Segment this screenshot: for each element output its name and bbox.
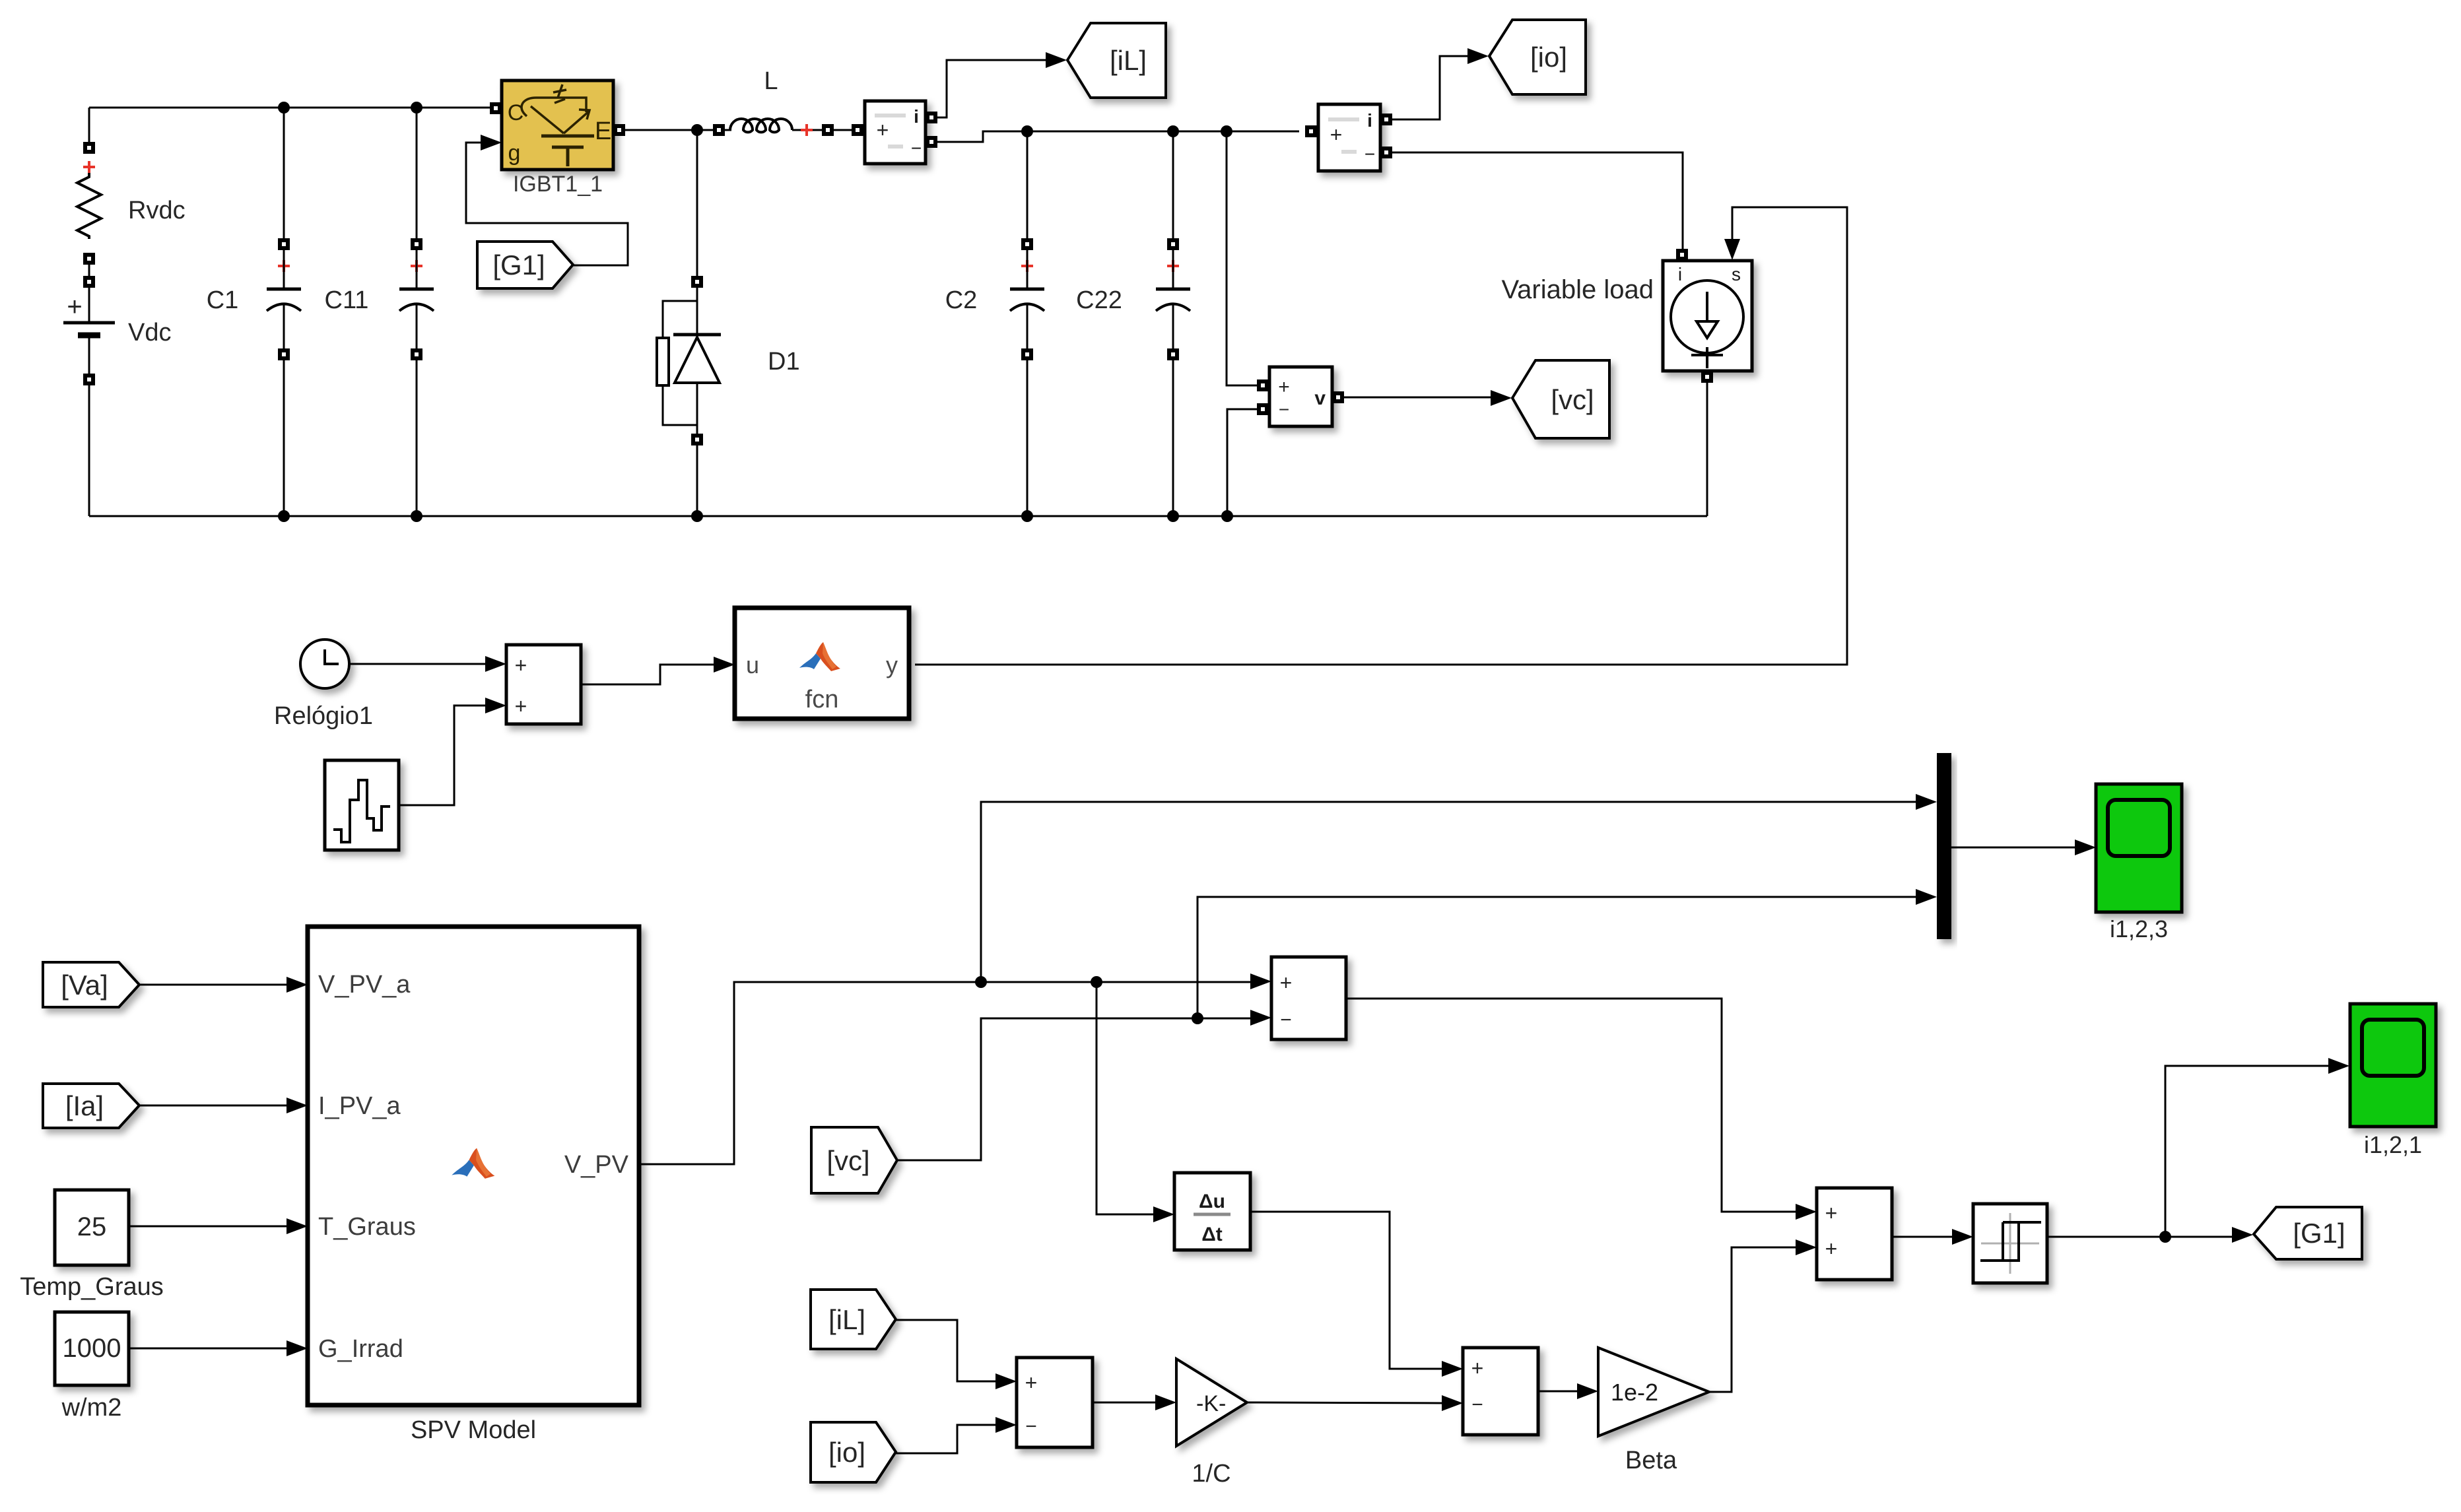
node D1 top junction bbox=[691, 124, 703, 136]
from tag [Ia] bbox=[43, 1084, 139, 1128]
svg-text:Beta: Beta bbox=[1625, 1447, 1677, 1474]
wire main bus to sensor2 bbox=[937, 131, 1299, 142]
svg-text:g: g bbox=[508, 141, 521, 166]
from tag [Va] bbox=[43, 962, 139, 1007]
svg-text:IGBT1_1: IGBT1_1 bbox=[513, 172, 603, 197]
wire relay to [G1] bbox=[2047, 1236, 2233, 1238]
node vc branch to mux bbox=[1192, 1012, 1203, 1024]
svg-text:E: E bbox=[595, 117, 611, 145]
current measurement block 1 (iL) bbox=[852, 124, 863, 136]
goto tag [iL] bbox=[1067, 23, 1166, 98]
repeating sequence block bbox=[325, 760, 399, 850]
wire vc to mux input 2 bbox=[1197, 897, 1917, 1018]
svg-text:C: C bbox=[508, 100, 524, 125]
snubber RC of D1 bbox=[663, 301, 696, 338]
wire sum to fcn bbox=[581, 665, 715, 684]
wire final sum to relay bbox=[1892, 1236, 1953, 1238]
capacitor C11 bbox=[416, 108, 418, 238]
port IGBT E output bbox=[613, 124, 625, 136]
capacitor C1 bbox=[283, 108, 285, 238]
svg-text:SPV Model: SPV Model bbox=[411, 1416, 536, 1444]
svg-text:C1: C1 bbox=[207, 286, 239, 314]
wire voltmeter + tap bbox=[1227, 131, 1257, 385]
wire to derivative input bbox=[1096, 982, 1153, 1214]
svg-text:+: + bbox=[1471, 1356, 1484, 1380]
node D1 bottom bbox=[691, 510, 703, 522]
svg-text:D1: D1 bbox=[768, 348, 800, 376]
svg-text:V_PV_a: V_PV_a bbox=[318, 971, 411, 999]
wire [G1] to IGBT gate bbox=[466, 143, 628, 265]
svg-text:Δu: Δu bbox=[1199, 1191, 1225, 1212]
svg-text:+: + bbox=[1278, 376, 1290, 398]
MATLAB function block fcn bbox=[735, 608, 909, 719]
wire left rail top bbox=[88, 108, 90, 145]
svg-text:[iL]: [iL] bbox=[828, 1304, 865, 1335]
port sensor2 i out bbox=[1380, 114, 1392, 125]
svg-text:G_Irrad: G_Irrad bbox=[318, 1335, 403, 1363]
svg-text:−: − bbox=[1280, 1009, 1292, 1031]
svg-text:1/C: 1/C bbox=[1192, 1460, 1230, 1488]
wire V_PV to subtract + bbox=[639, 982, 1250, 1164]
goto tag [G1] lower bbox=[2254, 1207, 2362, 1259]
port sensor2 - out bbox=[1380, 147, 1392, 158]
node V_PV branch to derivative bbox=[1091, 976, 1102, 988]
wire repseq to sum bbox=[399, 706, 485, 805]
svg-text:V_PV: V_PV bbox=[564, 1151, 629, 1179]
svg-text:+: + bbox=[515, 694, 527, 718]
node voltmeter gnd bbox=[1221, 510, 1233, 522]
wire top bus left (Rvdc/C1/C11 to IGBT C) bbox=[89, 107, 493, 109]
svg-text:I_PV_a: I_PV_a bbox=[318, 1092, 401, 1120]
port sensor1 i out bbox=[926, 112, 937, 123]
scope i1,2,1 bbox=[2350, 1004, 2436, 1127]
mux bbox=[1937, 753, 1951, 939]
wire 1000 to SPV bbox=[129, 1348, 287, 1350]
variable load block bbox=[1676, 249, 1688, 261]
DC voltage source Vdc bbox=[88, 288, 90, 321]
relay block bbox=[1973, 1204, 2047, 1283]
node V_PV branch to mux bbox=[975, 976, 987, 988]
svg-text:Relógio1: Relógio1 bbox=[274, 702, 373, 730]
svg-text:C22: C22 bbox=[1076, 286, 1122, 314]
svg-text:+: + bbox=[1025, 1371, 1038, 1395]
wire voltmeter to [vc] bbox=[1344, 397, 1492, 399]
wire derivative to beta sum + bbox=[1250, 1212, 1442, 1369]
node C22 bottom bbox=[1167, 510, 1179, 522]
capacitor C2 bbox=[1027, 131, 1028, 238]
wire 1/C to beta sum - bbox=[1247, 1402, 1442, 1403]
svg-text:fcn: fcn bbox=[805, 686, 839, 713]
wire sensor2 i to [io] bbox=[1392, 56, 1469, 119]
wire subtract out to final sum bbox=[1346, 999, 1796, 1212]
node C11 top bbox=[411, 102, 422, 114]
wire [iL] to sum + bbox=[896, 1320, 995, 1381]
svg-text:[io]: [io] bbox=[828, 1437, 865, 1468]
wire IGBT E to L bbox=[625, 129, 713, 131]
svg-text:i: i bbox=[914, 106, 919, 127]
svg-text:v: v bbox=[1314, 387, 1326, 409]
constant block 25 Temp_Graus bbox=[55, 1190, 129, 1265]
wire [io] to sum - bbox=[896, 1425, 995, 1453]
svg-text:[Va]: [Va] bbox=[61, 970, 108, 1001]
wire bottom rail bbox=[89, 515, 1707, 517]
svg-text:i1,2,1: i1,2,1 bbox=[2364, 1131, 2422, 1158]
wire sensor1 i to [iL] bbox=[937, 60, 1047, 117]
svg-text:[iL]: [iL] bbox=[1110, 45, 1147, 76]
svg-text:−: − bbox=[1471, 1394, 1483, 1416]
wire fcn y to load s port bbox=[915, 207, 1847, 665]
svg-text:C11: C11 bbox=[325, 286, 369, 314]
from tag [vc] lower bbox=[811, 1127, 897, 1193]
wire V_PV to mux input 1 bbox=[981, 802, 1917, 982]
constant block 1000 w/m2 bbox=[55, 1312, 129, 1385]
gain block 1/C bbox=[1176, 1359, 1247, 1446]
gain block Beta 1e-2 bbox=[1598, 1348, 1709, 1436]
svg-text:[io]: [io] bbox=[1530, 42, 1567, 73]
svg-text:+: + bbox=[1825, 1237, 1838, 1261]
svg-text:[Ia]: [Ia] bbox=[65, 1090, 104, 1121]
wire sum to 1/C gain bbox=[1093, 1402, 1157, 1404]
node C11 bottom bbox=[411, 510, 422, 522]
svg-text:+: + bbox=[1280, 971, 1293, 995]
svg-text:[vc]: [vc] bbox=[826, 1145, 869, 1176]
svg-text:-K-: -K- bbox=[1196, 1391, 1226, 1416]
wire Beta to final sum bbox=[1709, 1247, 1796, 1392]
node C1 top bbox=[278, 102, 290, 114]
svg-text:i1,2,3: i1,2,3 bbox=[2110, 915, 2168, 942]
port IGBT C input bbox=[490, 102, 502, 114]
wire mux to scope i1,2,3 bbox=[1951, 847, 2076, 849]
svg-text:Δt: Δt bbox=[1201, 1224, 1223, 1245]
node voltmeter tap bbox=[1221, 125, 1232, 137]
svg-text:Temp_Graus: Temp_Graus bbox=[20, 1273, 164, 1301]
svg-text:[G1]: [G1] bbox=[2293, 1218, 2345, 1249]
svg-text:s: s bbox=[1732, 264, 1741, 284]
sum block (clock + repseq) bbox=[506, 645, 581, 724]
svg-text:Vdc: Vdc bbox=[128, 319, 171, 346]
transistor IGBT1_1 bbox=[502, 81, 613, 170]
node C1 bottom bbox=[278, 510, 290, 522]
wire clock to sum bbox=[349, 663, 485, 665]
final sum block (++) bbox=[1817, 1188, 1892, 1280]
svg-text:+: + bbox=[1825, 1201, 1838, 1225]
capacitor C22 bbox=[1172, 131, 1174, 238]
port load bottom bbox=[1701, 371, 1713, 383]
node relay output branch bbox=[2159, 1231, 2171, 1243]
arrowhead into g bbox=[481, 135, 502, 150]
svg-text:T_Graus: T_Graus bbox=[318, 1213, 416, 1241]
svg-text:1e-2: 1e-2 bbox=[1611, 1379, 1658, 1406]
svg-text:u: u bbox=[746, 651, 759, 678]
wire sum to Beta gain bbox=[1538, 1391, 1577, 1393]
inductor L bbox=[713, 124, 725, 136]
svg-text:−: − bbox=[1025, 1416, 1037, 1437]
scope i1,2,3 bbox=[2096, 784, 2182, 912]
sum block iL minus io bbox=[1017, 1358, 1093, 1447]
wire 25 to SPV bbox=[129, 1226, 287, 1228]
svg-text:L: L bbox=[764, 67, 778, 95]
sum block before Beta gain bbox=[1463, 1348, 1538, 1435]
voltage measurement block vc bbox=[1257, 379, 1269, 391]
goto tag [vc] bbox=[1512, 360, 1609, 438]
svg-text:+: + bbox=[515, 653, 527, 677]
node C22 top bbox=[1167, 125, 1179, 137]
svg-text:i: i bbox=[1678, 264, 1682, 284]
clock Relogio1 bbox=[300, 640, 349, 688]
port voltmeter v out bbox=[1332, 391, 1344, 403]
arrowhead into s bbox=[1724, 239, 1740, 260]
from tag [iL] lower bbox=[811, 1290, 896, 1349]
svg-text:−: − bbox=[1365, 144, 1375, 164]
svg-text:Rvdc: Rvdc bbox=[128, 197, 185, 224]
svg-text:C2: C2 bbox=[945, 286, 978, 314]
from tag [io] lower bbox=[811, 1422, 896, 1482]
goto tag [io] bbox=[1489, 20, 1586, 94]
svg-text:Variable load: Variable load bbox=[1501, 275, 1654, 304]
svg-text:[G1]: [G1] bbox=[492, 249, 545, 280]
svg-text:−: − bbox=[1279, 399, 1289, 420]
svg-text:w/m2: w/m2 bbox=[61, 1394, 122, 1422]
svg-text:1000: 1000 bbox=[63, 1334, 121, 1363]
svg-text:25: 25 bbox=[77, 1212, 107, 1241]
svg-text:[vc]: [vc] bbox=[1551, 384, 1594, 415]
svg-text:i: i bbox=[1367, 110, 1372, 131]
wire [vc] to subtract - bbox=[897, 1018, 1250, 1160]
port sensor1 - out bbox=[926, 136, 937, 148]
node C2 bottom bbox=[1021, 510, 1033, 522]
subtract block V_PV minus vc bbox=[1271, 957, 1346, 1039]
svg-text:+: + bbox=[877, 118, 889, 142]
from tag [G1] bbox=[477, 242, 573, 288]
node C2 top bbox=[1021, 125, 1033, 137]
wire voltmeter - to bottom rail bbox=[1227, 409, 1257, 516]
wire sensor2 - to load bbox=[1392, 152, 1683, 249]
wire load to bottom rail bbox=[1706, 383, 1708, 516]
svg-text:+: + bbox=[67, 292, 82, 321]
svg-text:+: + bbox=[1330, 123, 1343, 147]
resistor Rvdc bbox=[83, 142, 95, 154]
current measurement block 2 (io) bbox=[1305, 125, 1317, 137]
wire [Va] to SPV bbox=[139, 984, 287, 986]
diode D1 bbox=[696, 130, 698, 276]
svg-text:y: y bbox=[886, 651, 898, 678]
derivative block du/dt bbox=[1174, 1173, 1250, 1250]
svg-text:−: − bbox=[911, 138, 922, 158]
wire to scope i1,2,1 bbox=[2165, 1066, 2330, 1237]
wire [Ia] to SPV bbox=[139, 1105, 287, 1107]
SPV Model block bbox=[308, 927, 639, 1405]
